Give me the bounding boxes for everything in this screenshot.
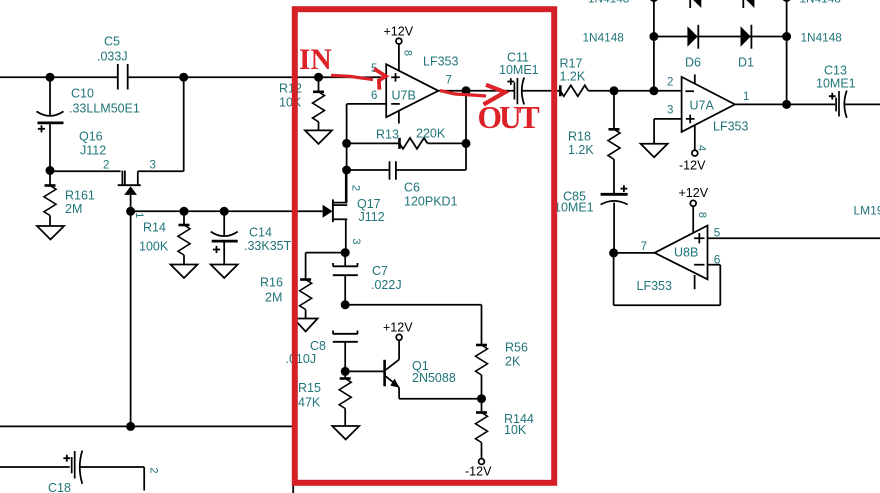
svg-text:.33LLM50E1: .33LLM50E1 — [69, 102, 140, 116]
svg-text:.33K35T: .33K35T — [244, 239, 292, 253]
svg-text:10ME1: 10ME1 — [554, 201, 594, 215]
resistor R18 — [568, 91, 620, 193]
svg-text:1N4148: 1N4148 — [801, 30, 843, 44]
node emitter junction — [477, 394, 486, 403]
svg-text:R12: R12 — [279, 82, 302, 96]
node R14 top junction — [180, 207, 189, 216]
svg-text:7: 7 — [641, 239, 648, 253]
svg-text:Q17: Q17 — [357, 197, 381, 211]
wire C85 junction to U8B output — [614, 252, 655, 254]
svg-text:C10: C10 — [71, 87, 94, 101]
pin 2 label C18 — [147, 467, 159, 473]
svg-text:120PKD1: 120PKD1 — [404, 195, 458, 209]
ground U7A — [641, 144, 668, 158]
ground below R161 — [37, 226, 64, 240]
wire feedback vertical — [465, 91, 467, 170]
wire Q16 source down — [130, 211, 132, 426]
label OUT — [478, 100, 540, 135]
power -12V U7A — [679, 159, 706, 173]
svg-text:LF353: LF353 — [423, 55, 458, 69]
svg-text:Q16: Q16 — [79, 130, 103, 144]
svg-text:1.2K: 1.2K — [568, 143, 594, 157]
highlight red rectangle — [295, 9, 554, 483]
resistor R56 — [476, 341, 528, 399]
svg-text:J112: J112 — [80, 144, 106, 158]
svg-text:2M: 2M — [65, 202, 82, 216]
svg-text:10ME1: 10ME1 — [499, 63, 539, 77]
node top row right junction — [782, 0, 791, 2]
diode D6 — [685, 25, 701, 70]
resistor R15 — [298, 371, 351, 426]
pin 3 label Q17 — [350, 238, 362, 244]
svg-text:LF353: LF353 — [637, 279, 672, 293]
svg-text:1N4148: 1N4148 — [583, 30, 625, 44]
capacitor C5 — [97, 35, 128, 90]
ground below R14 — [171, 265, 198, 279]
capacitor C85 — [554, 185, 628, 253]
node U8B output junction — [609, 248, 618, 257]
svg-text:3: 3 — [667, 105, 673, 117]
label 1N4148 left — [583, 30, 625, 44]
wire main input net — [0, 76, 117, 78]
resistor R13 — [347, 127, 466, 149]
svg-text:3: 3 — [350, 238, 362, 244]
op-amp U7A — [667, 74, 749, 156]
resistor R17 — [560, 57, 615, 97]
node diode row left junction — [649, 32, 658, 41]
svg-text:1.2K: 1.2K — [560, 70, 586, 84]
svg-text:100K: 100K — [139, 240, 169, 254]
wire diode output branch — [786, 0, 788, 104]
svg-text:R161: R161 — [65, 189, 95, 203]
ground below R12 — [305, 130, 332, 144]
node top row left junction — [649, 0, 658, 2]
resistor R16 — [260, 276, 312, 319]
wire C10 junction to Q16 gate — [50, 170, 121, 172]
svg-text:R56: R56 — [505, 341, 528, 355]
wire Q16 drain to input net — [138, 77, 184, 171]
svg-text:C18: C18 — [48, 481, 71, 493]
wire bottom bus down at red border — [292, 426, 294, 493]
svg-text:U7B: U7B — [392, 89, 416, 103]
capacitor C18 — [0, 451, 144, 493]
label LM19 partial — [854, 204, 880, 218]
wire U7B inverting input — [347, 104, 387, 143]
svg-text:.022J: .022J — [371, 278, 402, 292]
power +12V U7B — [384, 25, 414, 39]
node bottom bus junction — [126, 422, 135, 431]
svg-text:.033J: .033J — [97, 50, 128, 64]
node feedback R13 junction — [462, 139, 471, 148]
svg-text:7: 7 — [446, 74, 452, 86]
diode top right partial — [743, 0, 754, 8]
svg-text:LM19: LM19 — [854, 204, 880, 218]
svg-text:-12V: -12V — [679, 159, 706, 173]
svg-text:C6: C6 — [404, 181, 420, 195]
pin 1 label Q16 — [133, 212, 145, 218]
wire C8 junction to Q1 base — [345, 370, 383, 372]
wire C7 junction to R56 top — [345, 305, 481, 345]
svg-text:2: 2 — [349, 185, 361, 191]
svg-text:10K: 10K — [504, 423, 527, 437]
pin 4 label U7A — [696, 145, 708, 151]
node R12 top junction — [314, 73, 323, 82]
svg-text:2: 2 — [147, 467, 159, 473]
svg-text:C7: C7 — [372, 264, 388, 278]
diode D1 — [738, 25, 754, 70]
svg-text:1: 1 — [743, 91, 749, 103]
node C7 bottom junction — [341, 300, 350, 309]
svg-text:6: 6 — [371, 90, 377, 102]
node C10 bottom junction — [46, 166, 55, 175]
svg-text:U8B: U8B — [674, 246, 698, 260]
wire U8B noninverting output net — [708, 237, 880, 239]
pin 8 label U8B — [696, 212, 708, 218]
label IN — [299, 44, 332, 76]
node diode row right junction — [782, 32, 791, 41]
resistor R14 — [139, 211, 190, 264]
svg-text:+12V: +12V — [384, 25, 414, 39]
wire R17 to U7A inverting input — [614, 90, 682, 92]
svg-text:3: 3 — [150, 160, 156, 172]
capacitor C8 — [286, 331, 358, 372]
node U7B output junction — [462, 86, 471, 95]
svg-text:4: 4 — [696, 145, 708, 151]
node C5 right junction — [179, 73, 188, 82]
svg-text:8: 8 — [401, 50, 413, 56]
ground below C14 — [211, 265, 238, 279]
svg-text:C5: C5 — [104, 35, 120, 49]
svg-text:C8: C8 — [310, 339, 326, 353]
wire U7A output — [735, 103, 835, 105]
svg-text:R15: R15 — [298, 381, 321, 395]
svg-text:2K: 2K — [505, 355, 521, 369]
capacitor C13 — [816, 64, 880, 118]
wire bottom bus — [0, 425, 293, 427]
node C14 top junction — [220, 207, 229, 216]
transistor Q16 — [79, 130, 156, 212]
wire diode branch up — [653, 0, 655, 91]
svg-text:D6: D6 — [685, 56, 701, 70]
node Q17 source junction — [341, 248, 350, 257]
op-amp U7B — [371, 38, 458, 123]
svg-text:10K: 10K — [279, 96, 302, 110]
svg-text:1N4148: 1N4148 — [588, 0, 630, 5]
transistor Q17 — [323, 170, 385, 253]
node C6 left junction — [342, 166, 351, 175]
svg-text:+12V: +12V — [383, 321, 413, 335]
svg-text:J112: J112 — [359, 210, 385, 224]
svg-text:R14: R14 — [143, 221, 166, 235]
svg-text:C13: C13 — [824, 64, 847, 78]
wire C5 right to U7B noninverting input — [129, 76, 387, 78]
svg-text:R17: R17 — [560, 57, 583, 71]
pin 8 label U7B — [401, 50, 413, 56]
svg-text:+12V: +12V — [679, 186, 709, 200]
capacitor C14 — [211, 211, 292, 264]
svg-text:R16: R16 — [260, 276, 283, 290]
capacitor C7 — [333, 253, 402, 305]
annotation arrow IN — [331, 69, 386, 90]
resistor R12 — [279, 77, 325, 130]
svg-text:D1: D1 — [738, 56, 754, 70]
label 1N4148 right — [801, 30, 843, 44]
svg-text:2: 2 — [103, 160, 109, 172]
pin 2 label Q17 — [349, 185, 361, 191]
ground below R16 — [294, 319, 318, 332]
svg-text:220K: 220K — [416, 127, 446, 141]
svg-text:R13: R13 — [376, 128, 399, 142]
wire R13 junction down — [346, 143, 348, 202]
transistor Q1 — [385, 334, 456, 398]
svg-text:2: 2 — [667, 77, 673, 89]
wire U8B feedback — [614, 253, 721, 305]
label 1N4148 top left partial — [588, 0, 630, 5]
resistor R161 — [44, 171, 95, 227]
resistor R144 — [476, 399, 534, 465]
annotation arrow OUT — [440, 85, 505, 105]
svg-text:8: 8 — [696, 212, 708, 218]
node input junction A — [46, 73, 55, 82]
svg-text:C14: C14 — [249, 226, 272, 240]
power +12V Q1 — [383, 321, 413, 335]
svg-text:10ME1: 10ME1 — [816, 77, 856, 91]
power +12V U8B — [679, 186, 709, 200]
wire Q1 emitter to R56 bottom — [399, 398, 481, 400]
node R17 right junction — [610, 86, 619, 95]
svg-text:LF353: LF353 — [713, 120, 748, 134]
node diode branch junction — [649, 86, 658, 95]
svg-text:U7A: U7A — [690, 99, 715, 113]
power -12V R144 — [465, 465, 492, 479]
svg-text:1N4148: 1N4148 — [800, 0, 842, 5]
ground below R15 — [332, 426, 359, 440]
wire Q17 source to R16 — [306, 253, 346, 280]
wire U7B output — [438, 90, 514, 92]
capacitor C11 — [499, 51, 560, 105]
svg-text:IN: IN — [299, 44, 332, 76]
svg-text:2M: 2M — [265, 291, 282, 305]
capacitor C6 — [347, 161, 466, 208]
node Q16 source junction — [126, 207, 135, 216]
node C8 bottom junction — [341, 367, 350, 376]
svg-text:R18: R18 — [568, 130, 591, 144]
svg-text:2N5088: 2N5088 — [412, 371, 456, 385]
diode top left partial — [690, 0, 701, 8]
svg-text:OUT: OUT — [478, 100, 540, 135]
svg-text:.010J: .010J — [286, 352, 317, 366]
node U7A output junction — [782, 100, 791, 109]
svg-text:5: 5 — [714, 225, 721, 239]
capacitor C10 — [37, 77, 140, 170]
label 1N4148 top right partial — [800, 0, 842, 5]
wire diode row — [654, 36, 787, 38]
svg-text:-12V: -12V — [465, 465, 492, 479]
node R13 left junction — [342, 139, 351, 148]
wire U7A noninverting input — [654, 119, 682, 144]
op-amp U8B — [637, 200, 721, 292]
svg-text:47K: 47K — [298, 395, 321, 409]
wire Q16 source to Q17 gate — [131, 210, 323, 212]
